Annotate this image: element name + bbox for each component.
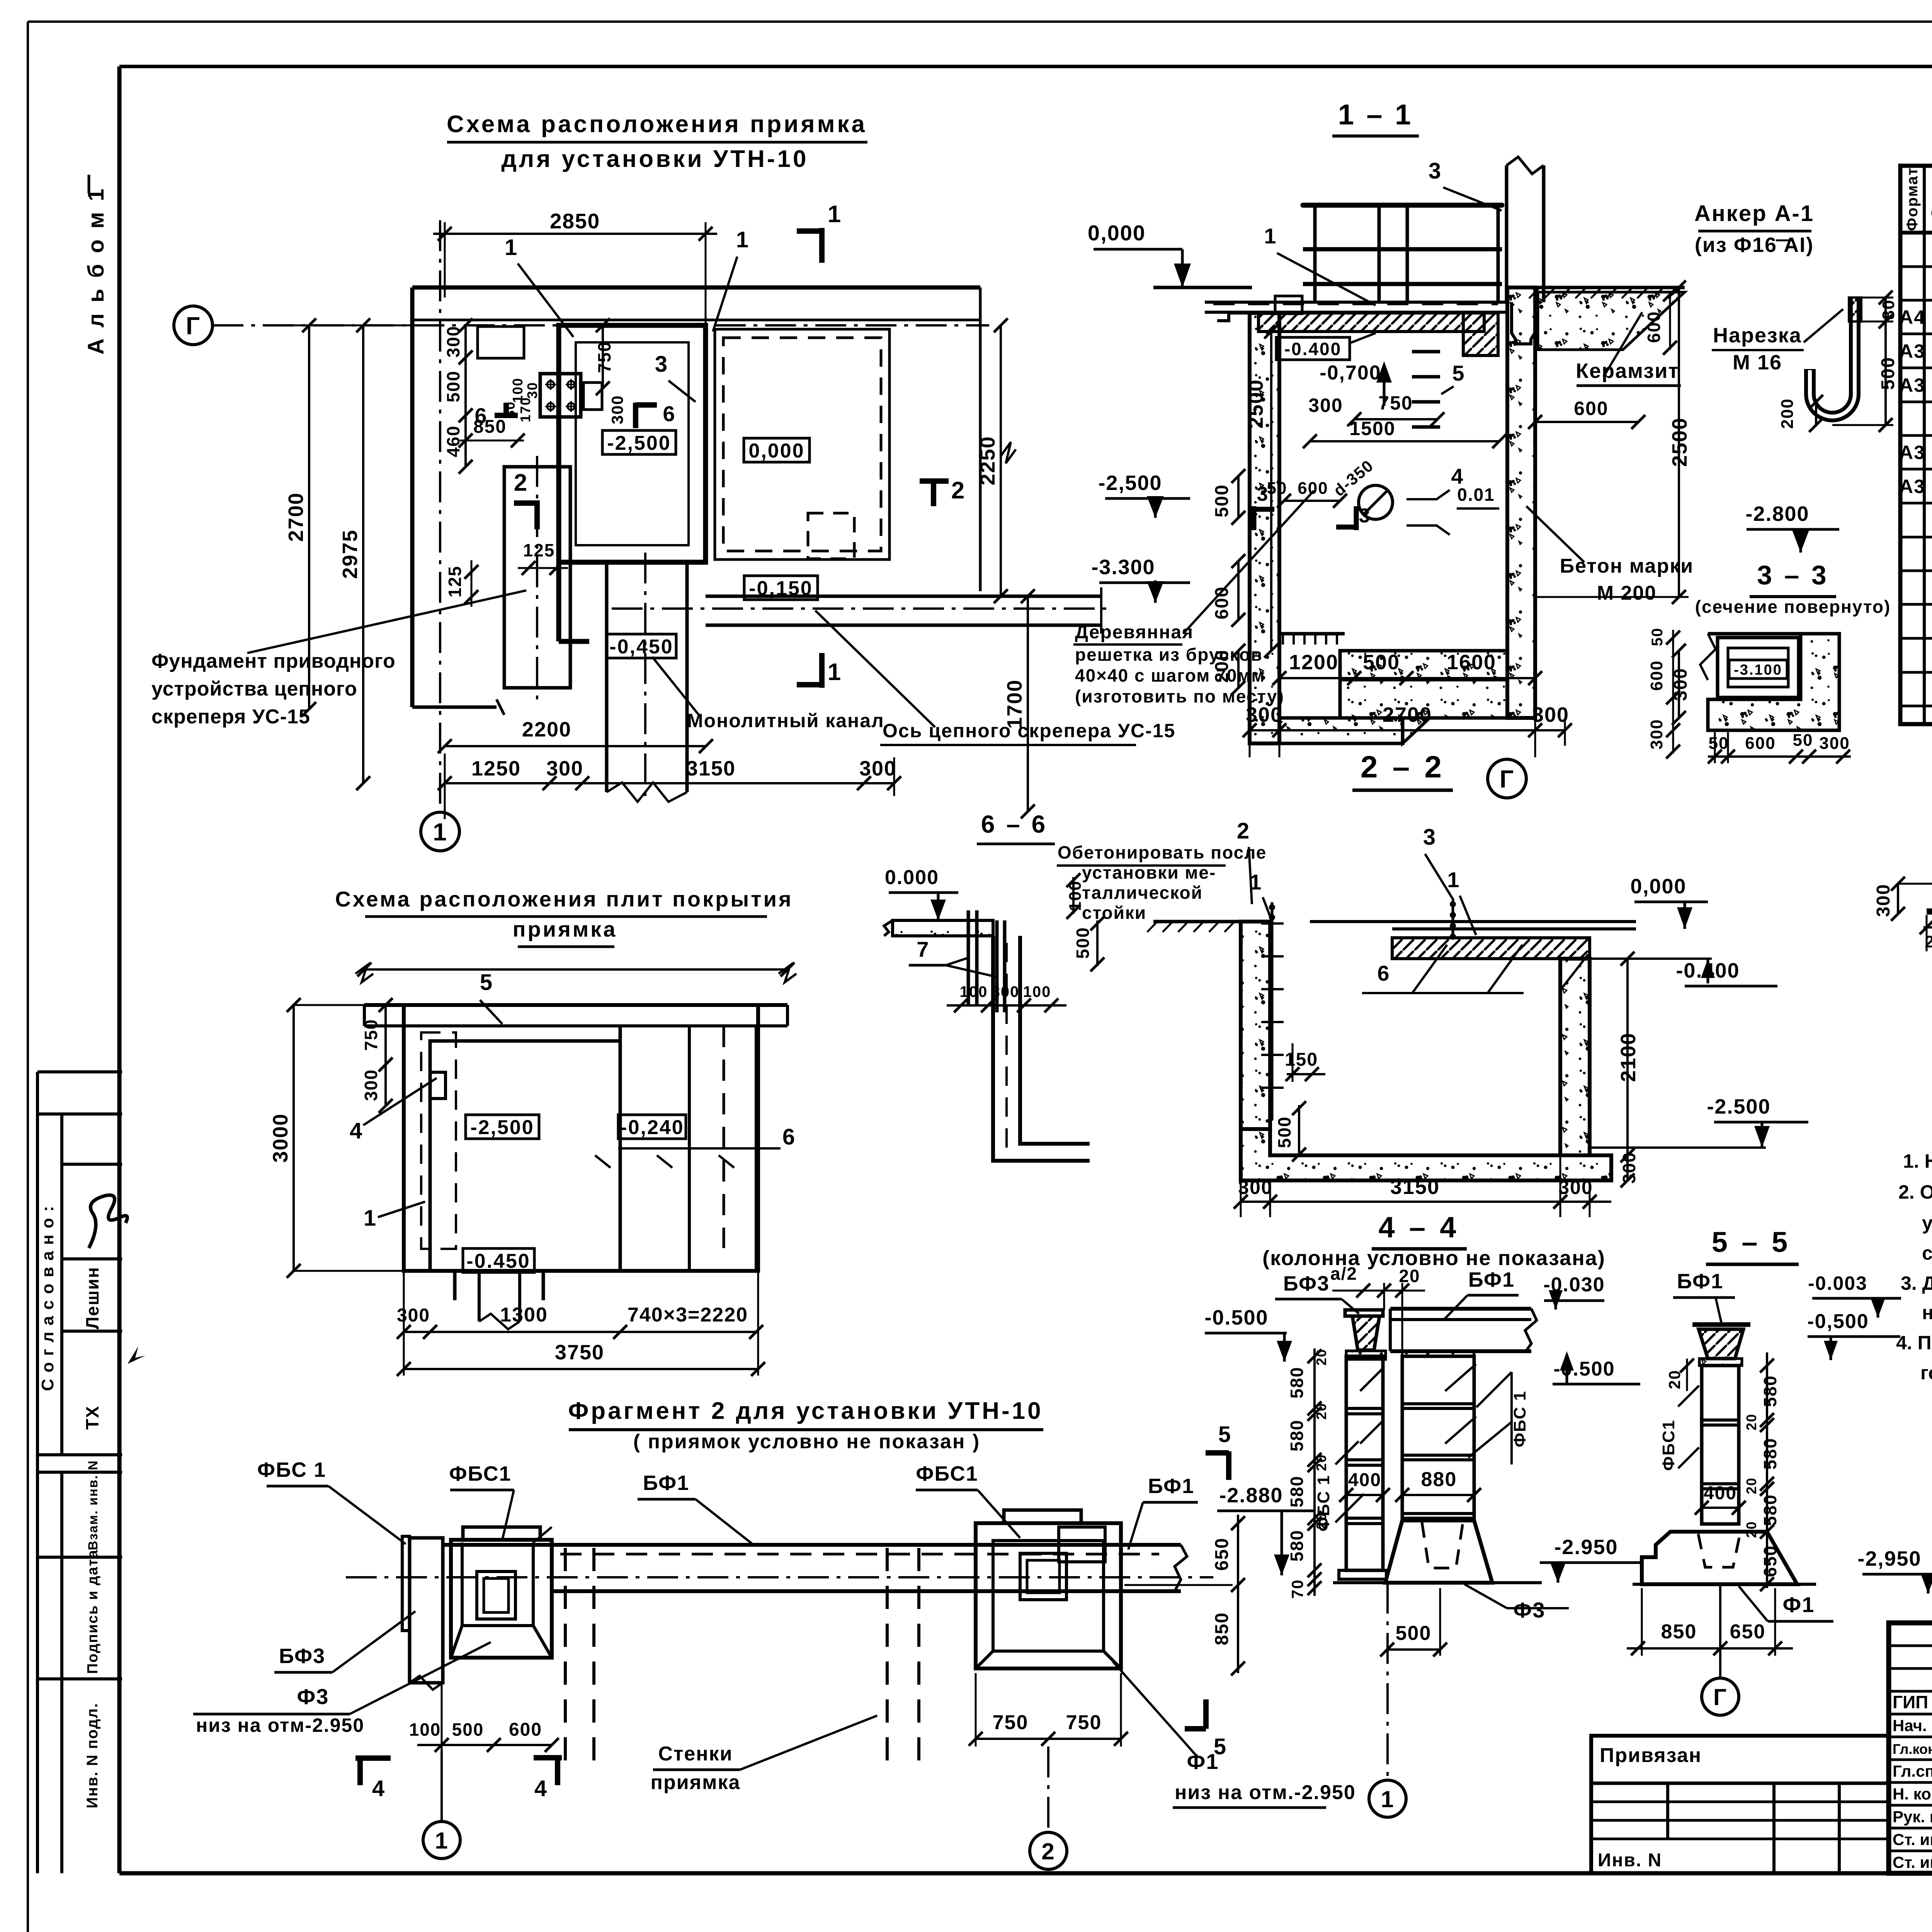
ground line left section	[1153, 286, 1252, 289]
stamp arrow mark	[128, 1346, 145, 1364]
svg-text:Рук. гр.: Рук. гр.	[1893, 1808, 1932, 1826]
svg-text:1. Настоящий лист смотри совм: 1. Настоящий лист смотри совместно с лис…	[1903, 1150, 1932, 1172]
plates dim 3750	[404, 1368, 758, 1370]
svg-text:ФБС1: ФБС1	[916, 1462, 978, 1485]
svg-text:1: 1	[435, 1828, 448, 1854]
svg-text:Инв. N: Инв. N	[1598, 1850, 1662, 1871]
svg-text:850: 850	[1212, 1612, 1232, 1645]
axis G circle section	[1488, 759, 1526, 798]
svg-text:5: 5	[1218, 1422, 1231, 1447]
svg-text:1 – 1: 1 – 1	[1338, 99, 1413, 131]
svg-text:1300: 1300	[500, 1304, 548, 1326]
svg-text:400: 400	[1704, 1483, 1737, 1503]
svg-text:-0,450: -0,450	[609, 636, 673, 658]
axis circle 1	[421, 812, 459, 851]
svg-text:2: 2	[1237, 818, 1250, 844]
detail 4-4 axis circle 1	[1386, 1583, 1389, 1777]
level box 0.000 plan	[744, 438, 810, 462]
svg-text:(изготовить по месту): (изготовить по месту)	[1075, 686, 1284, 706]
svg-text:650: 650	[1760, 1545, 1780, 1577]
svg-text:20: 20	[1313, 1403, 1329, 1420]
svg-text:-0.450: -0.450	[466, 1250, 530, 1272]
ladder rungs 5	[1412, 350, 1440, 354]
hidden plate dashed line	[1213, 302, 1498, 305]
svg-text:Гл.спец.: Гл.спец.	[1893, 1762, 1932, 1780]
svg-text:0,000: 0,000	[748, 440, 804, 462]
scraper drive foundation rect	[504, 467, 570, 688]
svg-text:Деревянная: Деревянная	[1075, 622, 1194, 643]
svg-text:650: 650	[1212, 1537, 1232, 1571]
svg-text:А3: А3	[1899, 374, 1925, 396]
svg-text:300: 300	[1819, 734, 1850, 753]
axis G line	[213, 324, 989, 327]
svg-text:низ на отм.-2.950: низ на отм.-2.950	[1175, 1781, 1356, 1804]
svg-text:100: 100	[409, 1719, 441, 1740]
column socket drain	[1512, 302, 1535, 344]
fragment flag 4 right	[534, 1755, 562, 1760]
svg-text:-0.003: -0.003	[1808, 1272, 1867, 1294]
inner frame	[117, 66, 122, 1873]
svg-text:3 – 3: 3 – 3	[1757, 560, 1829, 590]
plate big slab	[430, 1041, 620, 1271]
svg-text:согласно чертежам ТХ.: согласно чертежам ТХ.	[1922, 1242, 1932, 1264]
fragment right beam notch	[1121, 1543, 1144, 1547]
svg-text:Зона: Зона	[1929, 178, 1932, 218]
pit right wall section	[1507, 287, 1535, 718]
svg-text:-3.300: -3.300	[1091, 556, 1155, 579]
svg-text:-3.100: -3.100	[1734, 662, 1782, 678]
svg-text:650: 650	[1730, 1621, 1766, 1643]
svg-text:ГИП: ГИП	[1893, 1692, 1928, 1712]
page number band line	[119, 65, 1932, 68]
svg-text:1600: 1600	[1447, 651, 1496, 674]
plate level -2.500	[466, 1115, 539, 1139]
svg-text:БФ1: БФ1	[1677, 1270, 1723, 1293]
svg-text:1: 1	[505, 235, 518, 260]
svg-text:2500: 2500	[1244, 379, 1267, 429]
svg-text:750: 750	[594, 341, 614, 373]
mid bottom dims	[1241, 1201, 1611, 1203]
svg-text:300: 300	[546, 757, 583, 780]
svg-text:20: 20	[1743, 1521, 1759, 1538]
fragment centerline	[346, 1576, 1213, 1578]
svg-text:Схема расположения плит пок: Схема расположения плит покрытия	[335, 887, 793, 911]
svg-text:100: 100	[1023, 983, 1051, 1000]
svg-text:4: 4	[372, 1776, 385, 1801]
svg-text:300: 300	[1619, 1152, 1639, 1184]
soil wedge keramzit	[1538, 292, 1685, 350]
svg-text:3: 3	[1423, 825, 1436, 850]
plan right edge	[979, 287, 982, 591]
svg-text:0.01: 0.01	[1457, 485, 1495, 505]
svg-text:А3: А3	[1899, 476, 1925, 497]
plan left dim chain 2700 2975	[308, 325, 310, 709]
svg-text:А л ь б о м 1: А л ь б о м 1	[83, 186, 109, 355]
svg-text:500: 500	[1073, 927, 1093, 959]
svg-text:500: 500	[1363, 651, 1400, 674]
plates outer rect	[404, 1005, 758, 1271]
sump bottom concrete	[1279, 718, 1403, 743]
anchor plate A	[478, 327, 524, 358]
svg-text:0,000: 0,000	[1630, 875, 1686, 898]
svg-text:2: 2	[1041, 1838, 1055, 1864]
detail 4-4 left column blocks	[1346, 1356, 1383, 1570]
mid dim 300 right	[1626, 1155, 1629, 1180]
fragment right foundation F1	[976, 1523, 1121, 1668]
plates top dim line	[364, 968, 787, 971]
mid section rebar right	[1452, 900, 1454, 938]
fragment axis circle 2	[1047, 1747, 1049, 1832]
fragment flag 5 top	[1226, 1451, 1231, 1480]
svg-text:-0.400: -0.400	[1284, 339, 1342, 359]
svg-text:ФБС1: ФБС1	[1659, 1420, 1678, 1471]
svg-text:БФ3: БФ3	[1283, 1272, 1330, 1295]
svg-text:Ст. инж.: Ст. инж.	[1893, 1853, 1932, 1871]
fragment axis circle 1	[440, 1750, 443, 1821]
svg-text:5: 5	[480, 970, 493, 995]
detail 4-4 beam BF1	[1390, 1307, 1531, 1311]
svg-text:3150: 3150	[1390, 1175, 1440, 1199]
svg-text:300: 300	[859, 757, 896, 780]
detail 4-4 left dim chain	[1313, 1349, 1316, 1596]
detail 6-6 posts	[967, 910, 970, 1005]
svg-text:(сечение повернуто): (сечение повернуто)	[1695, 597, 1891, 617]
detail 5-5 column blocks	[1702, 1366, 1739, 1524]
fragment dim 650 850 chain	[1237, 1515, 1239, 1673]
svg-text:6: 6	[1377, 961, 1390, 985]
detail 3-3 break	[1700, 634, 1716, 680]
plan bottom dim 2200	[445, 745, 706, 747]
svg-text:таллической: таллической	[1082, 883, 1203, 903]
axis 1 vertical	[439, 220, 441, 810]
svg-text:-2,950: -2,950	[1857, 1547, 1921, 1570]
axis G circle	[174, 306, 213, 345]
svg-text:Обетонировать после: Обетонировать после	[1058, 842, 1267, 862]
svg-text:1: 1	[433, 818, 447, 846]
stamp signature	[89, 1195, 128, 1248]
detail 3-3 bottom dims	[1708, 755, 1851, 758]
anchor thread hatch	[1849, 298, 1861, 321]
svg-text:20: 20	[1743, 1413, 1759, 1430]
svg-text:-2.500: -2.500	[1707, 1095, 1770, 1118]
svg-text:0.000: 0.000	[885, 866, 939, 889]
svg-text:Г: Г	[1713, 1684, 1727, 1710]
svg-text:300: 300	[361, 1069, 381, 1101]
detail 6-6 slab	[893, 920, 993, 936]
svg-text:300: 300	[608, 395, 626, 424]
plates dim 3000	[293, 1005, 295, 1271]
svg-text:М 200: М 200	[1597, 582, 1657, 604]
svg-text:125: 125	[445, 566, 465, 598]
leader reshetka	[1183, 491, 1314, 634]
section flag 1 bottom	[819, 653, 825, 688]
svg-text:ФБС1: ФБС1	[449, 1462, 511, 1485]
svg-text:Фундамент приводного: Фундамент приводного	[151, 650, 396, 672]
svg-text:Гл.кон.отд: Гл.кон.отд	[1893, 1741, 1932, 1757]
svg-text:3: 3	[1257, 483, 1269, 505]
pit inner line	[576, 342, 689, 545]
inner dim 2500 section	[1270, 332, 1272, 651]
svg-text:3750: 3750	[555, 1341, 604, 1364]
svg-text:А4: А4	[1899, 306, 1925, 328]
plates top beam strip	[364, 1003, 787, 1007]
detail 4-4 footing F3	[1385, 1520, 1492, 1583]
pit left wall section	[1250, 313, 1279, 743]
svg-text:580: 580	[1760, 1375, 1780, 1407]
machine frame bars	[1303, 203, 1502, 208]
plan left wall	[410, 287, 415, 707]
detail 4-4 right column blocks	[1402, 1351, 1474, 1356]
svg-text:2. Одновременно с выполнением: 2. Одновременно с выполнением монолитног…	[1898, 1181, 1932, 1203]
svg-text:70: 70	[1288, 1579, 1306, 1599]
svg-text:580: 580	[1287, 1476, 1307, 1508]
svg-text:2500: 2500	[1668, 417, 1691, 467]
svg-text:1: 1	[364, 1206, 377, 1231]
fragment left BF3 strip	[402, 1536, 410, 1631]
fragment left socket	[477, 1571, 515, 1619]
fragment beam BF1 plan	[442, 1543, 1181, 1547]
svg-text:Монолитный канал: Монолитный канал	[687, 710, 884, 731]
svg-text:300: 300	[1238, 1177, 1272, 1198]
svg-text:300: 300	[992, 983, 1020, 1000]
plates small anchor tag	[430, 1072, 446, 1099]
svg-text:3. Днище и стены приямка: 3. Днище и стены приямка выполнять из бе…	[1901, 1272, 1932, 1294]
svg-text:ФБС 1: ФБС 1	[1510, 1390, 1529, 1447]
svg-text:4: 4	[350, 1118, 363, 1143]
svg-text:5: 5	[1452, 361, 1465, 385]
svg-text:Нач. отд.: Нач. отд.	[1893, 1716, 1932, 1735]
sump box	[1278, 651, 1281, 718]
fragment flag 4 left	[355, 1755, 391, 1761]
section bottom dims	[1279, 677, 1535, 679]
svg-text:Схема расположения приямка: Схема расположения приямка	[447, 111, 867, 138]
section flag 3 pair	[1252, 506, 1257, 530]
svg-text:600: 600	[509, 1719, 542, 1740]
poz4 hat profile	[1927, 884, 1932, 912]
plates canal stub	[453, 1271, 457, 1300]
callout leader foundation	[247, 590, 526, 653]
plan right dim chain	[1000, 325, 1002, 596]
svg-text:1250: 1250	[471, 757, 521, 780]
svg-text:2 – 2: 2 – 2	[1361, 750, 1445, 784]
svg-text:50: 50	[1793, 731, 1813, 750]
level -0.400	[1276, 337, 1350, 360]
svg-text:300: 300	[397, 1305, 430, 1326]
detail 3-3 channel	[1718, 638, 1799, 697]
svg-text:2700: 2700	[1383, 703, 1432, 726]
svg-text:-0.500: -0.500	[1204, 1306, 1268, 1329]
svg-text:20: 20	[1313, 1349, 1329, 1366]
svg-text:(колонна условно не показана): (колонна условно не показана)	[1262, 1247, 1605, 1270]
plan top wall	[412, 286, 980, 290]
svg-text:30: 30	[524, 382, 540, 399]
svg-text:600: 600	[1644, 311, 1664, 343]
svg-text:Ф3: Ф3	[297, 1684, 329, 1709]
detail 5-5 axis circle G	[1719, 1584, 1721, 1678]
canal stub plan	[605, 562, 609, 792]
plate joints	[619, 1026, 622, 1271]
sump grate	[1279, 632, 1345, 636]
svg-text:170: 170	[517, 397, 533, 422]
svg-text:300: 300	[443, 326, 463, 358]
title block outer	[1889, 1623, 1932, 1873]
svg-text:Подпись и дата: Подпись и дата	[85, 1549, 101, 1674]
level box -0.150 plan	[744, 576, 818, 600]
svg-text:Ф1: Ф1	[1187, 1749, 1219, 1774]
section flag 6 left	[495, 413, 518, 418]
svg-text:устройства цепного: устройства цепного	[151, 678, 357, 700]
dim 2850 top	[433, 233, 717, 235]
svg-text:3: 3	[1359, 505, 1371, 527]
svg-text:300: 300	[1558, 1177, 1593, 1198]
detail 3-3 level box	[1729, 660, 1787, 679]
svg-text:Лешин: Лешин	[82, 1267, 102, 1329]
svg-text:Г: Г	[1500, 765, 1514, 793]
left margin stamp table	[37, 1070, 122, 1073]
svg-text:Привязан: Привязан	[1600, 1744, 1702, 1767]
svg-text:6 – 6: 6 – 6	[981, 810, 1048, 838]
svg-text:200: 200	[1778, 398, 1797, 429]
svg-text:750: 750	[993, 1711, 1029, 1734]
svg-text:стойки: стойки	[1082, 903, 1146, 923]
svg-text:580: 580	[1287, 1367, 1307, 1399]
privyazan table	[1591, 1736, 1889, 1873]
ground hatch right	[1529, 287, 1540, 298]
svg-text:Ст. инж.: Ст. инж.	[1893, 1830, 1932, 1849]
level box -0.450 plan	[607, 634, 676, 658]
svg-text:500: 500	[1396, 1622, 1432, 1645]
detail 4-4 cap BF3	[1345, 1310, 1383, 1316]
svg-text:580: 580	[1287, 1420, 1307, 1452]
svg-text:a/2: a/2	[1330, 1264, 1357, 1284]
svg-text:-0,700: -0,700	[1320, 362, 1381, 384]
svg-text:580: 580	[1287, 1530, 1307, 1562]
svg-text:300: 300	[1647, 719, 1666, 749]
fragment dashed wall pair A	[564, 1548, 567, 1770]
svg-text:Инв. N подл.: Инв. N подл.	[84, 1702, 101, 1808]
svg-text:500: 500	[452, 1719, 484, 1740]
svg-text:Ф3: Ф3	[1514, 1598, 1546, 1622]
mid section ground left	[1153, 920, 1241, 923]
svg-text:4. Поверхности стен приямка: 4. Поверхности стен приямка соприкасающи…	[1896, 1332, 1932, 1354]
svg-text:750: 750	[1378, 392, 1413, 414]
svg-text:6: 6	[663, 401, 675, 426]
mid section rebar left	[1271, 902, 1274, 1121]
svg-text:400: 400	[1348, 1470, 1381, 1490]
svg-text:20: 20	[1313, 1454, 1329, 1471]
svg-text:150: 150	[1285, 1049, 1318, 1070]
mid section top slab hatched	[1392, 938, 1590, 959]
fragment top plate left	[463, 1527, 540, 1540]
mid section left wall	[1241, 922, 1270, 1129]
anchor hook	[1810, 298, 1855, 417]
detail 5-5 footing F1	[1642, 1532, 1797, 1584]
svg-text:750: 750	[361, 1019, 381, 1051]
svg-text:3: 3	[655, 352, 668, 377]
svg-text:скреперя УС-15: скреперя УС-15	[151, 706, 310, 728]
svg-text:Взам. инв. N: Взам. инв. N	[86, 1460, 100, 1550]
svg-text:80: 80	[1879, 299, 1898, 320]
section flag 6 mid	[633, 403, 638, 428]
svg-text:-2.800: -2.800	[1745, 502, 1809, 526]
svg-text:-2.950: -2.950	[1554, 1536, 1618, 1559]
svg-text:Н. контр.: Н. контр.	[1893, 1785, 1932, 1803]
section flag 1 top	[819, 228, 825, 263]
svg-text:-2,500: -2,500	[607, 432, 671, 454]
plan bottom wall segment	[412, 706, 497, 709]
pit outline plan	[559, 325, 706, 562]
svg-text:50: 50	[1709, 734, 1729, 753]
spec table grid	[1900, 166, 1932, 724]
svg-text:приямка: приямка	[651, 1771, 741, 1794]
svg-text:20: 20	[1743, 1477, 1759, 1494]
svg-text:устройство каркаса и ограни: устройство каркаса и ограничителя для по…	[1922, 1212, 1932, 1234]
svg-text:7: 7	[917, 937, 929, 961]
svg-text:-2.880: -2.880	[1219, 1484, 1283, 1507]
svg-text:ТХ: ТХ	[82, 1405, 102, 1430]
svg-text:Фрагмент 2 для установки У: Фрагмент 2 для установки УТН-10	[568, 1398, 1043, 1424]
plates left dim chain	[384, 1005, 387, 1065]
svg-text:1: 1	[1249, 870, 1262, 894]
level box -2.500 plan	[602, 430, 676, 454]
small plate C	[583, 383, 602, 410]
svg-text:ФБС 1: ФБС 1	[1314, 1475, 1333, 1531]
slab left notch	[1217, 313, 1259, 321]
svg-text:40×40 с шагом 70мм: 40×40 с шагом 70мм	[1075, 665, 1265, 685]
svg-text:600: 600	[1298, 479, 1328, 498]
svg-text:БФ3: БФ3	[279, 1645, 325, 1668]
svg-text:300: 300	[1246, 703, 1283, 726]
svg-text:5 – 5: 5 – 5	[1712, 1226, 1791, 1258]
svg-text:решетка из брусков: решетка из брусков	[1075, 645, 1263, 665]
svg-text:1: 1	[1264, 224, 1277, 248]
svg-text:-0,240: -0,240	[620, 1116, 684, 1139]
svg-text:С о г л а с о в а н о :: С о г л а с о в а н о :	[38, 1205, 57, 1391]
svg-text:500: 500	[1274, 1116, 1294, 1148]
svg-text:850: 850	[1661, 1621, 1697, 1643]
svg-text:4 – 4: 4 – 4	[1378, 1211, 1459, 1244]
mid dim 2100	[1626, 959, 1629, 1155]
svg-text:установки ме-: установки ме-	[1082, 862, 1216, 883]
svg-text:500: 500	[443, 371, 463, 403]
svg-text:приямка: приямка	[513, 917, 617, 941]
right dim chain section	[1678, 287, 1680, 597]
svg-text:1: 1	[828, 201, 842, 228]
svg-text:3000: 3000	[269, 1113, 292, 1163]
svg-text:580: 580	[1760, 1438, 1780, 1470]
svg-text:1: 1	[828, 659, 842, 685]
svg-text:Нарезка: Нарезка	[1713, 324, 1802, 347]
machine dashed small square	[808, 513, 854, 559]
svg-text:2: 2	[951, 477, 965, 504]
svg-text:А3: А3	[1899, 340, 1925, 362]
svg-text:740×3=2220: 740×3=2220	[628, 1304, 748, 1326]
svg-text:БФ1: БФ1	[643, 1471, 689, 1495]
detail 5-5 cap	[1692, 1322, 1750, 1327]
svg-text:125: 125	[523, 540, 555, 560]
svg-text:низ на отм-2.950: низ на отм-2.950	[196, 1714, 364, 1736]
fragment dashed wall pair B	[886, 1548, 889, 1770]
svg-text:-2,500: -2,500	[470, 1116, 534, 1139]
section flag 2 right T	[920, 478, 949, 484]
canal break mark	[607, 782, 687, 802]
anchor plate B with bolts	[540, 374, 581, 417]
top slab hatched	[1259, 313, 1484, 332]
svg-text:3: 3	[1429, 158, 1442, 184]
svg-text:50: 50	[1267, 479, 1287, 498]
svg-text:БФ1: БФ1	[1468, 1268, 1515, 1291]
mid section floor line right	[1392, 920, 1636, 923]
